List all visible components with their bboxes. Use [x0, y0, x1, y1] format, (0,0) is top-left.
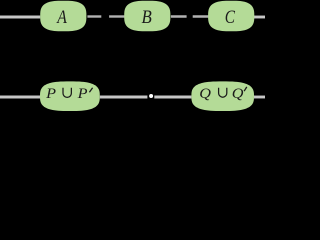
wire: left lead into P [0, 96, 40, 99]
wire: P to dot [100, 96, 148, 99]
wire: dashed A to B [87, 15, 125, 17]
node dot junction [149, 94, 153, 98]
node B [124, 1, 170, 32]
wire: right lead out of C [254, 16, 267, 19]
svg-text:Q: Q [232, 86, 244, 102]
node Q union Q' [191, 81, 254, 111]
svg-text:Q: Q [199, 86, 211, 102]
wire: right lead out of Q [254, 96, 267, 99]
node P union P' [40, 81, 100, 111]
svg-text:C: C [225, 8, 236, 28]
node C [208, 1, 254, 32]
svg-text:P: P [45, 86, 56, 102]
state diagram [0, 0, 265, 115]
node A [40, 1, 86, 32]
svg-text:P: P [77, 86, 88, 102]
wire: dot to Q [154, 96, 191, 99]
wire: left lead into A [0, 16, 40, 19]
svg-text:B: B [142, 8, 152, 28]
wire: dashed B to C [171, 15, 209, 17]
svg-text:A: A [56, 8, 68, 28]
